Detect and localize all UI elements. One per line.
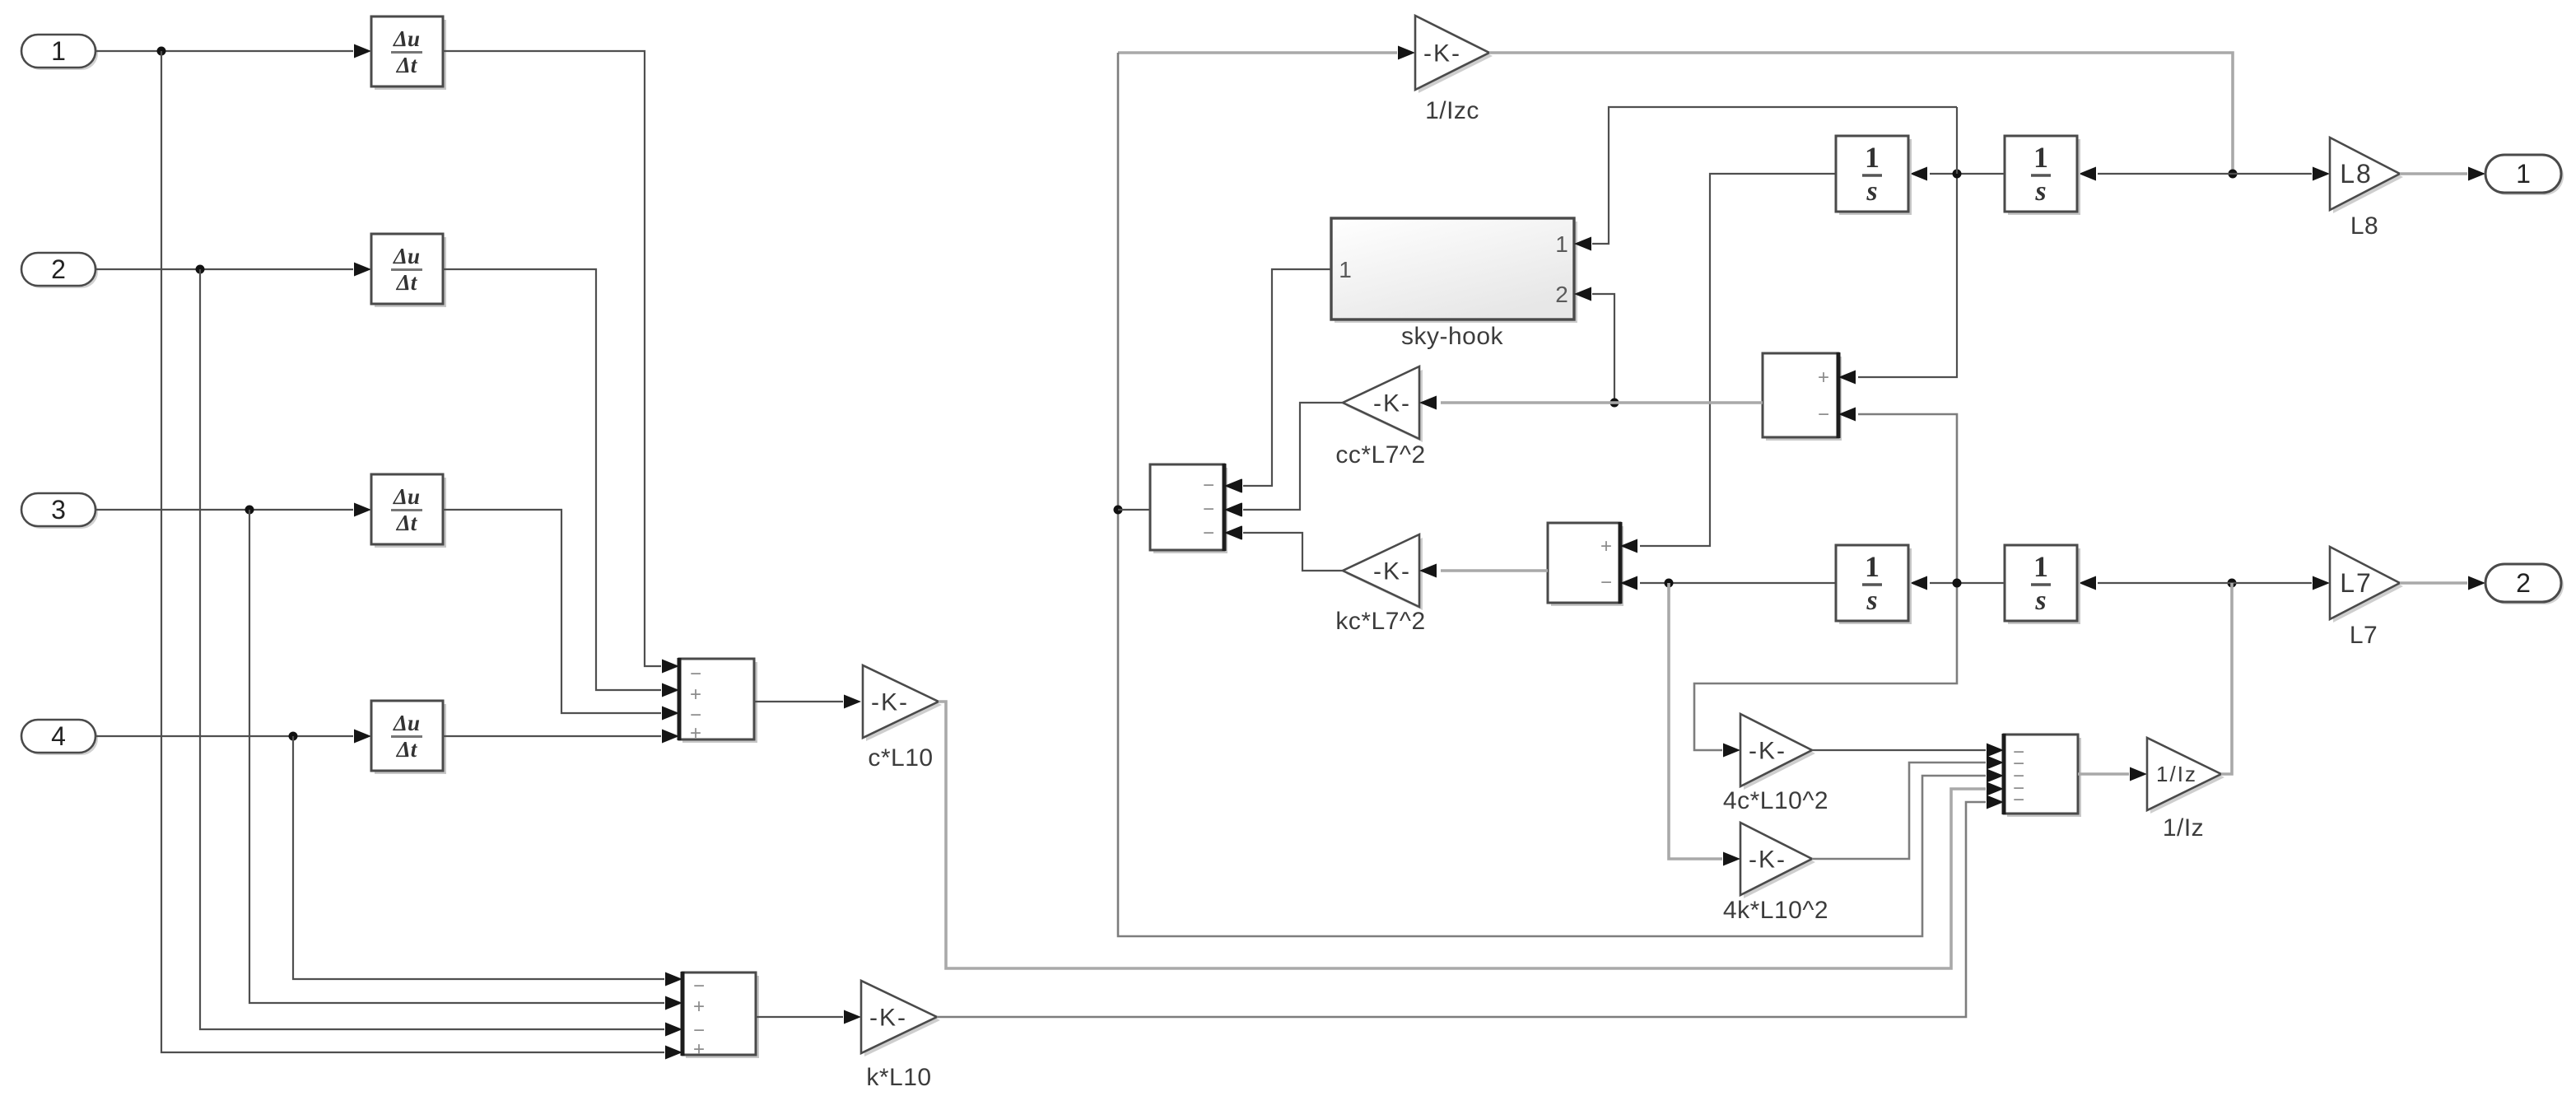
- svg-text:2: 2: [51, 254, 66, 284]
- svg-text:1: 1: [2033, 141, 2048, 174]
- svg-text:L8: L8: [2350, 212, 2378, 240]
- svg-text:1: 1: [2033, 550, 2048, 583]
- output port 2: [2485, 564, 2564, 604]
- junction integratorB out: [1953, 170, 1962, 179]
- wire cc*L7^2 to SumC input2: [1225, 403, 1343, 517]
- svg-text:+: +: [693, 996, 705, 1018]
- svg-text:2: 2: [1555, 282, 1568, 307]
- svg-text:L7: L7: [2350, 622, 2378, 649]
- svg-text:Δu: Δu: [393, 484, 420, 509]
- svg-text:+: +: [690, 683, 701, 706]
- sum block SumD: [1548, 522, 1623, 606]
- label c*L10: [868, 744, 933, 772]
- input port 2: [21, 253, 98, 288]
- svg-text:+: +: [1818, 366, 1829, 389]
- svg-text:s: s: [1866, 176, 1877, 207]
- svg-text:L7: L7: [2340, 568, 2373, 598]
- svg-text:k*L10: k*L10: [866, 1064, 931, 1091]
- wire k*L10 to Sum3 input5: [937, 795, 2004, 1018]
- wire sky-hook out1 to SumC input1: [1225, 269, 1331, 493]
- wire Sum1 to gain c*L10: [754, 695, 861, 709]
- svg-text:s: s: [2034, 585, 2046, 616]
- wire 4k*L10^2 to Sum3 input2: [1812, 756, 2004, 860]
- gain cc*L7^2: [1343, 366, 1423, 442]
- sum block SumB: [1763, 352, 1842, 441]
- label L7: [2350, 622, 2378, 649]
- svg-text:+: +: [1600, 535, 1612, 557]
- svg-text:−: −: [1818, 403, 1829, 426]
- wire port3 to Derivative3: [95, 503, 371, 517]
- wire L7 to out port 2: [2400, 576, 2485, 590]
- wire 4c*L10^2 to Sum3 input1: [1812, 744, 2004, 758]
- gain L7: [2330, 547, 2403, 623]
- arrow into SumC in1: [1224, 479, 1241, 493]
- wire SumB output to sky-hook in2: [1574, 287, 1614, 403]
- junction port1: [157, 47, 166, 56]
- wire integratorB node to SumB plus: [1838, 174, 1957, 385]
- wire integratorC out to SumD minus: [1620, 576, 1836, 590]
- sum block SumC: [1150, 464, 1227, 553]
- svg-text:4k*L10^2: 4k*L10^2: [1723, 897, 1828, 924]
- wire integratorB out up: [1956, 107, 1958, 174]
- arrow into SumC in3: [1224, 526, 1241, 540]
- wire integratorC node to 4k*L10^2: [1669, 583, 1740, 866]
- integrator block 1/s A: [1836, 136, 1912, 215]
- svg-text:−: −: [693, 975, 705, 997]
- junction row1 right: [2229, 170, 2238, 179]
- wire port2 to Derivative2: [95, 263, 371, 277]
- input port 4: [21, 720, 98, 755]
- junction integratorD out: [1953, 579, 1962, 588]
- wire integratorD node to SumB minus: [1694, 408, 1957, 758]
- junction SumC output: [1114, 506, 1123, 515]
- svg-text:−: −: [690, 663, 701, 685]
- wire Derivative3 to Sum1 input3: [443, 510, 679, 721]
- wire port4 feedback to Sum2 input1: [293, 736, 682, 986]
- junction integratorC out tap: [1665, 579, 1674, 588]
- gain 4k*L10^2: [1740, 823, 1815, 898]
- svg-text:4c*L10^2: 4c*L10^2: [1723, 787, 1828, 814]
- label k*L10: [866, 1064, 931, 1091]
- svg-text:1: 1: [51, 36, 66, 66]
- wire integratorD to integratorC: [1910, 576, 2005, 590]
- svg-text:−: −: [1203, 522, 1214, 544]
- svg-text:-K-: -K-: [1749, 846, 1786, 874]
- svg-text:cc*L7^2: cc*L7^2: [1335, 441, 1425, 469]
- wire port4 to Derivative4: [95, 730, 371, 744]
- svg-text:1/Iz: 1/Iz: [2156, 762, 2197, 786]
- gain 1/Izc: [1415, 16, 1493, 93]
- subsystem sky-hook: [1331, 218, 1577, 323]
- wire Derivative2 to Sum1 input2: [443, 269, 679, 697]
- wire L8 to out port 1: [2400, 167, 2485, 181]
- wire 1/Iz to row2 node: [2221, 583, 2232, 774]
- label sky-hook: [1401, 323, 1504, 350]
- svg-text:3: 3: [51, 495, 66, 525]
- wire Sum2 to gain k*L10: [756, 1010, 861, 1024]
- svg-text:s: s: [2034, 176, 2046, 207]
- wire integratorA out to SumD plus: [1620, 174, 1836, 553]
- wire Derivative4 to Sum1 input4: [443, 730, 679, 744]
- svg-text:1/Izc: 1/Izc: [1425, 97, 1479, 124]
- derivative block Derivative4: [371, 701, 446, 774]
- svg-text:1: 1: [2516, 159, 2531, 189]
- svg-text:1: 1: [1865, 141, 1880, 174]
- svg-text:sky-hook: sky-hook: [1401, 323, 1504, 350]
- svg-text:−: −: [2013, 789, 2024, 811]
- svg-text:L8: L8: [2340, 159, 2373, 189]
- wire SumC output net vertical: [1118, 53, 2004, 936]
- wire 1/Izc to integrator row1: [1489, 53, 2233, 174]
- label L8: [2350, 212, 2378, 240]
- wire port2 feedback to Sum2 input3: [200, 269, 682, 1037]
- input port 3: [21, 493, 98, 529]
- derivative block Derivative2: [371, 234, 446, 307]
- svg-text:Δu: Δu: [393, 711, 420, 735]
- wire SumD output to kc*L7^2: [1419, 564, 1548, 578]
- svg-text:-K-: -K-: [871, 689, 909, 716]
- svg-text:1: 1: [1865, 550, 1880, 583]
- svg-text:-K-: -K-: [1373, 390, 1411, 417]
- wire port3 feedback to Sum2 input2: [249, 510, 682, 1010]
- wire row2 node to gain L7: [2232, 576, 2330, 590]
- svg-text:−: −: [1600, 571, 1612, 594]
- derivative block Derivative1: [371, 16, 446, 90]
- svg-text:Δu: Δu: [393, 26, 420, 51]
- svg-text:c*L10: c*L10: [868, 744, 933, 772]
- junction sky-hook in2 tap: [1610, 399, 1619, 408]
- arrow into SumC in2: [1224, 503, 1241, 517]
- wire Derivative1 to Sum1 input1: [443, 51, 679, 674]
- svg-text:kc*L7^2: kc*L7^2: [1335, 608, 1425, 635]
- label cc*L7^2: [1335, 441, 1425, 469]
- sum block Sum3: [2004, 734, 2081, 817]
- svg-text:4: 4: [51, 721, 66, 751]
- svg-text:−: −: [1203, 474, 1214, 497]
- svg-text:s: s: [1866, 585, 1877, 616]
- label 1/Izc: [1425, 97, 1479, 124]
- wire kc*L7^2 to SumC input3: [1225, 526, 1343, 571]
- wire port1 to Derivative1: [95, 44, 371, 58]
- svg-text:Δt: Δt: [396, 53, 418, 77]
- wire row1 node to integratorB: [2079, 167, 2233, 181]
- junction port2: [196, 265, 205, 274]
- gain kc*L7^2: [1343, 534, 1423, 610]
- output port 1: [2485, 155, 2564, 195]
- svg-text:1/Iz: 1/Iz: [2163, 814, 2204, 842]
- wire node to gain 1/Izc: [1118, 46, 1415, 60]
- label 4k*L10^2: [1723, 897, 1828, 924]
- svg-text:Δt: Δt: [396, 511, 418, 535]
- integrator block 1/s D: [2005, 545, 2080, 624]
- wire port1 feedback to Sum2 input4: [161, 51, 682, 1060]
- gain k*L10: [861, 981, 940, 1056]
- integrator block 1/s C: [1836, 545, 1912, 624]
- svg-text:-K-: -K-: [1373, 558, 1411, 585]
- gain c*L10: [863, 665, 942, 741]
- svg-text:−: −: [1203, 498, 1214, 520]
- gain 4c*L10^2: [1740, 714, 1815, 790]
- wire row2 node to integratorD: [2079, 576, 2232, 590]
- label 4c*L10^2: [1723, 787, 1828, 814]
- wire integratorB to integratorA: [1910, 167, 2005, 181]
- svg-text:+: +: [693, 1038, 705, 1061]
- label 1/Iz: [2163, 814, 2204, 842]
- svg-text:1: 1: [1339, 257, 1352, 282]
- wire integratorB node to sky-hook in1: [1574, 107, 1957, 251]
- wire SumB output to cc*L7^2: [1419, 396, 1763, 410]
- svg-text:-K-: -K-: [869, 1005, 907, 1032]
- wire row1 node to gain L8: [2233, 167, 2330, 181]
- label kc*L7^2: [1335, 608, 1425, 635]
- svg-text:Δt: Δt: [396, 270, 418, 295]
- svg-text:2: 2: [2516, 568, 2531, 598]
- sum block Sum1: [679, 658, 757, 744]
- integrator block 1/s B: [2005, 136, 2080, 215]
- svg-text:-K-: -K-: [1749, 738, 1786, 765]
- gain L8: [2330, 138, 2403, 213]
- wire Sum3 to gain 1/Iz: [2078, 767, 2147, 781]
- junction port3: [245, 506, 254, 515]
- derivative block Derivative3: [371, 474, 446, 548]
- svg-text:Δt: Δt: [396, 737, 418, 762]
- svg-text:+: +: [690, 722, 701, 744]
- junction port4: [289, 732, 298, 741]
- wire c*L10 to Sum3 input4: [939, 702, 2004, 968]
- sum block Sum2: [682, 972, 759, 1061]
- input port 1: [21, 35, 98, 70]
- junction row2 right: [2228, 579, 2237, 588]
- svg-text:1: 1: [1555, 231, 1568, 257]
- wire SumC output to net: [1118, 509, 1150, 511]
- svg-text:Δu: Δu: [393, 244, 420, 268]
- svg-text:-K-: -K-: [1423, 40, 1461, 68]
- gain 1/Iz: [2147, 738, 2224, 814]
